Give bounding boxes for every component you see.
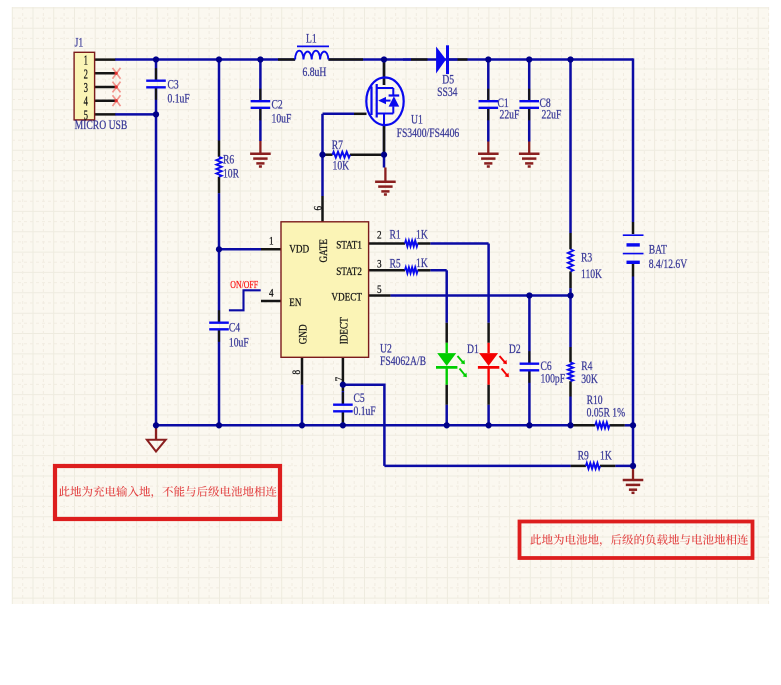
- wire D2 column upper: [487, 244, 490, 323]
- battery BAT: [623, 234, 644, 236]
- junction C3 top rail: [153, 56, 159, 62]
- junction R3 top rail: [567, 56, 573, 62]
- inductor L1: [297, 45, 329, 47]
- svg-text:30K: 30K: [581, 372, 598, 386]
- resistor R4: [568, 362, 573, 381]
- diode D5: [436, 47, 446, 74]
- junction VDECT R3 R4: [567, 292, 573, 298]
- wire gate corner down to R7 junction: [321, 114, 324, 155]
- VDECT pin5 stub: [369, 294, 391, 297]
- chip U2: [281, 222, 369, 357]
- STAT2 pin3 stub + R5 leads: [369, 269, 405, 272]
- svg-text:1K: 1K: [600, 449, 612, 463]
- svg-text:1: 1: [269, 234, 274, 248]
- GND pin8 stub: [301, 357, 304, 384]
- junction C8 top rail: [526, 56, 532, 62]
- svg-text:110K: 110K: [581, 267, 602, 281]
- wire D5 cathode to C1: [449, 58, 458, 61]
- ground below battery (battery ground): [632, 467, 634, 481]
- wire D1 column lower: [445, 405, 448, 426]
- junction D1 bottom rail: [444, 422, 450, 428]
- svg-text:R9: R9: [578, 449, 589, 463]
- capacitor C4: [218, 310, 220, 322]
- ground below C1: [487, 142, 489, 154]
- svg-text:ON/OFF: ON/OFF: [230, 279, 258, 291]
- R4 pin leads: [569, 347, 572, 362]
- capacitor C5: [342, 392, 344, 404]
- R7 pin leads: [323, 153, 333, 156]
- svg-text:FS3400/FS4406: FS3400/FS4406: [397, 126, 460, 140]
- wire R9 row: [384, 465, 570, 468]
- svg-text:C2: C2: [272, 98, 283, 112]
- junction gate R7: [319, 152, 325, 158]
- junction C4 bottom rail: [216, 422, 222, 428]
- wire GATE pin6 column: [321, 155, 324, 196]
- svg-text:R6: R6: [223, 153, 234, 167]
- junction GND pin8 bottom rail: [299, 422, 305, 428]
- svg-text:6.8uH: 6.8uH: [303, 65, 327, 79]
- IDECT pin7 stub: [342, 357, 345, 391]
- ground below U1 source: [384, 168, 386, 182]
- junction C2 top rail: [257, 56, 263, 62]
- annotation box 1: [55, 466, 280, 519]
- svg-text:R1: R1: [390, 228, 401, 242]
- svg-text:VDECT: VDECT: [331, 292, 362, 304]
- wire VDD pin: [219, 248, 261, 251]
- svg-text:3: 3: [377, 257, 382, 271]
- LED D1 green: [446, 343, 448, 353]
- annotation box 2: [520, 522, 753, 559]
- wire C8 column: [528, 60, 531, 102]
- resistor R10: [595, 423, 609, 429]
- svg-text:FS4062A/B: FS4062A/B: [380, 354, 426, 368]
- no-connect X pins 2,3,4: [113, 68, 121, 79]
- wire D5 anode: [403, 58, 411, 61]
- wire pin8 GND column lower: [301, 385, 304, 426]
- svg-text:C4: C4: [229, 321, 241, 335]
- capacitor C3: [155, 68, 157, 80]
- J1 pin stubs: [95, 58, 116, 61]
- D5 pin leads: [411, 58, 428, 61]
- svg-text:MICRO USB: MICRO USB: [75, 118, 128, 132]
- wire top rail from L1 to right corner: [328, 58, 633, 61]
- wire gate of U1 to corner: [323, 113, 355, 116]
- wire C3 column: [155, 60, 158, 81]
- battery pin leads: [632, 222, 635, 234]
- svg-text:8.4/12.6V: 8.4/12.6V: [649, 257, 688, 271]
- svg-text:8: 8: [289, 370, 303, 375]
- junction VDECT C6: [526, 292, 532, 298]
- ground below C2: [259, 141, 261, 154]
- wire U1 source to R7 junction: [383, 125, 386, 168]
- capacitor C2: [259, 89, 261, 101]
- junction R6 top rail: [216, 56, 222, 62]
- svg-text:STAT2: STAT2: [336, 266, 362, 278]
- svg-text:10K: 10K: [333, 159, 350, 173]
- svg-text:0.05R 1%: 0.05R 1%: [587, 406, 626, 420]
- transistor U1 PMOS: [366, 78, 403, 126]
- svg-text:6: 6: [311, 206, 325, 211]
- svg-text:VDD: VDD: [289, 244, 309, 256]
- resistor R5: [405, 268, 418, 274]
- junction D2 bottom rail: [485, 422, 491, 428]
- svg-text:22uF: 22uF: [500, 108, 520, 122]
- wire STAT2 row: R5 to corner: [430, 269, 446, 272]
- wire R6 column bottom to VDD junction: [218, 193, 221, 249]
- junction R9 battery ground node: [630, 463, 636, 469]
- resistor R3: [568, 249, 573, 271]
- svg-text:EN: EN: [289, 297, 301, 309]
- connector J1: [74, 52, 95, 120]
- svg-text:0.1uF: 0.1uF: [354, 404, 376, 418]
- junction C1 top rail: [485, 56, 491, 62]
- svg-text:22uF: 22uF: [542, 108, 562, 122]
- R6 pin leads: [218, 141, 221, 157]
- svg-text:SS34: SS34: [437, 85, 458, 99]
- D1 pin leads: [445, 323, 448, 343]
- svg-text:GND: GND: [298, 324, 310, 344]
- capacitor C8: [528, 89, 530, 101]
- capacitor C1: [487, 89, 489, 101]
- wire C6 column: [528, 296, 531, 364]
- svg-text:10R: 10R: [223, 166, 240, 180]
- svg-text:2: 2: [377, 227, 382, 241]
- junction J1 pin5 / C3: [153, 111, 159, 117]
- svg-text:D1: D1: [467, 342, 479, 356]
- EN pin stub: [261, 300, 281, 303]
- wire battery column right edge: [632, 58, 635, 222]
- resistor R6: [216, 157, 221, 177]
- svg-text:100pF: 100pF: [541, 372, 566, 386]
- wire battery column lower: [632, 277, 635, 466]
- L1 pin leads: [278, 58, 295, 61]
- GATE pin6 stub: [321, 196, 324, 222]
- wire pin7 IDECT to C5: [342, 391, 345, 405]
- wire C3/pin5 column down to bottom rail: [155, 114, 158, 425]
- svg-text:C5: C5: [354, 391, 365, 405]
- svg-text:D2: D2: [509, 342, 521, 356]
- junction R4 R10 bottom rail: [567, 422, 573, 428]
- svg-text:R3: R3: [581, 251, 592, 265]
- R3 pin leads: [569, 233, 572, 249]
- wire R4 bottom to rail: [569, 397, 572, 426]
- wire VDD junction down through C4 to bottom rail: [218, 249, 221, 322]
- wire D1 column upper: [445, 270, 448, 323]
- svg-text:BAT: BAT: [649, 243, 667, 257]
- VDD pin stub: [261, 248, 281, 251]
- wire J1 pin5 to C3 column: [115, 113, 156, 116]
- svg-text:1K: 1K: [416, 256, 428, 270]
- junction U1 drain top rail: [381, 56, 387, 62]
- svg-text:10uF: 10uF: [229, 336, 249, 350]
- svg-text:0.1uF: 0.1uF: [168, 91, 190, 105]
- junction bottom rail left end: [153, 422, 159, 428]
- wire D2 column lower: [487, 405, 490, 426]
- wire C2 column: [259, 60, 262, 101]
- resistor R7: [333, 152, 351, 158]
- wire VDECT row: [390, 294, 570, 297]
- wire top rail from J1 pin1 to L1: [115, 58, 295, 61]
- LED D2 red: [487, 343, 489, 353]
- capacitor C6: [528, 351, 530, 363]
- U1 gate pin black: [354, 113, 367, 116]
- svg-text:U1: U1: [411, 113, 423, 127]
- wire R3 to VDECT junction: [569, 288, 572, 347]
- svg-text:1K: 1K: [416, 227, 428, 241]
- resistor R1: [405, 241, 418, 247]
- resistor R9: [586, 463, 600, 469]
- ground triangle (charge input ground): [155, 425, 157, 440]
- wire bottom rail left part: [156, 424, 573, 427]
- junction C5 bottom rail: [340, 422, 346, 428]
- svg-text:7: 7: [332, 377, 346, 382]
- junction VDD node: [216, 246, 222, 252]
- step waveform symbol: [229, 290, 261, 310]
- svg-text:J1: J1: [75, 36, 84, 50]
- svg-text:C3: C3: [168, 78, 179, 92]
- svg-text:4: 4: [269, 285, 274, 299]
- junction C6 bottom rail: [526, 422, 532, 428]
- D2 pin leads: [487, 323, 490, 343]
- svg-text:R5: R5: [390, 256, 401, 270]
- svg-text:5: 5: [377, 282, 382, 296]
- svg-text:GATE: GATE: [318, 239, 330, 263]
- svg-text:L1: L1: [306, 31, 317, 45]
- wire C1 column: [487, 60, 490, 102]
- R10 pin leads: [573, 424, 595, 427]
- svg-text:10uF: 10uF: [272, 111, 292, 125]
- svg-text:STAT1: STAT1: [336, 240, 362, 252]
- svg-text:R4: R4: [581, 359, 593, 373]
- svg-text:IDECT: IDECT: [338, 317, 350, 344]
- svg-text:R7: R7: [332, 138, 343, 152]
- wire bottom rail right of R10: [625, 424, 633, 427]
- junction R10 battery column: [630, 422, 636, 428]
- wire R6 column top: [218, 60, 221, 141]
- U1 drain pin black: [383, 62, 386, 85]
- wire R3 column top: [569, 60, 572, 234]
- U1 source pin black: [383, 125, 386, 155]
- STAT1 pin2 stub + R1 leads: [369, 242, 405, 245]
- R9 pin leads: [571, 465, 586, 468]
- wire U1 drain from top rail: [383, 60, 386, 86]
- wire IDECT branch to R9 row: [343, 385, 385, 466]
- wire STAT1 row: R1 to corner: [430, 242, 488, 245]
- junction IDECT C5: [340, 382, 346, 388]
- junction R7 U1 source: [381, 152, 387, 158]
- ground below C8: [528, 142, 530, 154]
